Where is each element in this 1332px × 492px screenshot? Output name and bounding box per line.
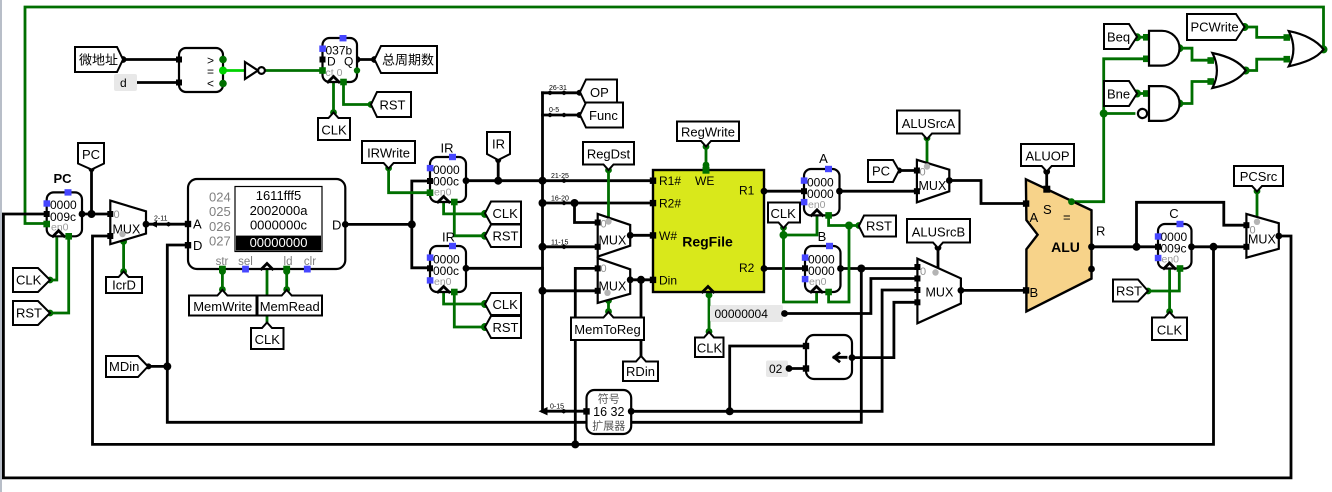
node IR2 RST tip dot [481,323,489,331]
wire sign-extend branch to shifter input [730,346,803,411]
wire PCWrite to OR2 in1 [1245,27,1287,37]
splitter tap 0-15 to sign extender [545,410,583,413]
tunnel label RST (IR1) [485,225,521,248]
splitter 0-5 diamonds [546,113,568,118]
svg-text:<: < [207,77,214,91]
gate NOT [245,62,265,79]
tunnel label CLK (A/B) [768,203,800,229]
node IR2 CLK tip dot [481,300,489,308]
svg-text:MemToReg: MemToReg [574,322,640,337]
node AB CLK tip dot [780,224,787,231]
splitter 26-31 diamonds [546,90,568,95]
node counter CLK tip dot [330,109,337,116]
gate AND2 (Bne) with inverted input [1138,86,1180,121]
wire MDin tunnel stub [148,365,167,368]
tunnel label MDin [106,356,148,377]
wire PC label riser [90,169,93,215]
svg-text:RST: RST [1116,284,1142,299]
comparator [176,48,227,92]
wire IR tunnel stub [497,160,500,181]
wire constant 02 to shifter shift-amount [789,367,803,370]
wire branch C net up to Din-MUX input 0 [575,268,597,444]
mux ALUSrcA [914,160,953,203]
wire IR1 RST [454,204,485,236]
splitter 0-15 diamond [560,409,568,414]
svg-text:MUX: MUX [599,280,627,294]
svg-text:微地址: 微地址 [79,53,118,68]
wire memory D output to IR registers [345,181,427,268]
node C CLK tip dot [1166,308,1173,315]
wire Bne tunnel to AND2 in1 [1137,92,1146,95]
svg-text:16-20: 16-20 [551,196,569,203]
node Din/RDin junction [637,276,645,284]
wire A output to ALUSrcA in1 [840,190,917,193]
node IR1 RST tip dot [481,232,489,240]
node RegFile CLK dots [706,292,713,299]
wire B output to ALUSrcB in0 [841,267,918,270]
wire RDin tunnel riser [640,280,643,356]
node MemRead dots [283,268,290,275]
node memory D out junction [408,220,416,228]
wire IR1 output main bus (21-25 row) [466,179,650,182]
svg-text:IcrD: IcrD [112,278,136,293]
svg-text:CLK: CLK [1157,323,1183,338]
wire PC tunnel to ALUSrcA in0 [899,169,917,172]
mux PCSrc-MUX [1243,214,1282,258]
wire PCSrc select [1256,191,1259,216]
wire MemToReg to Din-MUX select [607,300,610,312]
wire ALUSrcB select (2-bit, black) [937,247,940,267]
svg-text:02: 02 [769,362,783,376]
svg-text:0: 0 [920,266,926,278]
svg-text:21-25: 21-25 [551,173,569,180]
node bus-splitter junction [539,177,547,185]
tunnel label OP [580,80,617,105]
node = flag junction at Bne [1100,110,1108,118]
wire W-MUX output to RegFile W# [630,234,650,237]
svg-text:11-15: 11-15 [551,239,568,246]
memory RAM [185,179,349,273]
node IR1 CLK tip dot [481,210,489,218]
tunnel label RegDst [583,142,634,170]
window left border [0,0,2,492]
svg-text:MUX: MUX [1248,233,1276,247]
mux Din-MUX (MemToReg) [595,258,634,303]
svg-text:A: A [1030,210,1039,225]
wire OR1 out to OR2 in2 [1246,59,1287,70]
svg-text:ALUOP: ALUOP [1025,149,1069,164]
svg-text:MUX: MUX [926,286,954,300]
wire comparator = to NOT gate (logic 1) [223,69,243,72]
wire B output to memory D input via bottom (net B / MDin) [167,245,861,422]
tunnel label PCSrc [1234,166,1283,192]
wire IR2 CLK [444,292,485,304]
svg-text:Beq: Beq [1107,30,1130,45]
node MemToReg dots [605,297,612,304]
svg-text:ALU: ALU [1051,239,1080,255]
svg-text:RDin: RDin [626,364,655,379]
tunnel label MemWrite [189,290,257,316]
node PCWrite tip dot [1241,23,1249,31]
svg-text:MUX: MUX [599,234,627,248]
tunnel label ALUSrcA [897,111,960,140]
node IcrD tip dot [120,268,127,275]
svg-text:PC: PC [82,147,100,162]
node OR1 out dot [1242,67,1250,75]
node shifter branch on sign-extend net [726,407,734,415]
tunnel label cycle count [375,46,438,73]
svg-text:CLK: CLK [493,297,519,312]
tunnel label CLK (IR2) [485,293,521,315]
svg-text:Func: Func [589,108,618,123]
wire IRWrite to IR1 enable [389,168,427,193]
node OR2 out dot [1320,45,1328,53]
wire Beq tunnel to AND1 in1 [1137,36,1146,39]
tunnel label ALUSrcB [907,219,970,248]
gate OR2 [1284,31,1324,66]
wire IR2 RST [454,294,485,327]
svg-text:RST: RST [866,219,892,234]
tunnel label CLK (C) [1152,312,1187,340]
wire AND2 out to OR1 in2 [1179,82,1210,104]
tunnel label CLK (IR1) [485,202,521,225]
wire RegDst to W-MUX select [607,170,610,218]
node constant d output [131,79,138,86]
tunnel label PC (top) [78,143,104,170]
svg-text:PC: PC [53,171,72,186]
tunnel label ALUOP [1021,144,1074,172]
wire C CLK [1168,269,1171,312]
tunnel label CLK (PC) [13,268,50,292]
node MDin tap [163,362,171,370]
node micro-address tunnel tip [120,56,127,63]
svg-text:024: 024 [209,190,231,205]
tunnel label micro-address [75,47,123,72]
tunnel label RDin [623,356,658,381]
node AB RST tip dot [855,222,862,229]
node AND2 out dot [1175,100,1183,108]
node PC-MUX select dot [120,238,127,245]
wire counter Q to cycle-count tunnel [357,58,374,61]
node PC RST tip dot [47,310,54,317]
node ALUSrcB tip dot [935,244,942,251]
node cycle tunnel tip dot [371,56,378,63]
svg-text:R: R [1096,224,1105,239]
svg-text:26-31: 26-31 [549,85,567,92]
wire constant d to comparator in2 [134,81,176,84]
svg-text:R2#: R2# [659,197,681,211]
wire shifter output to ALUSrcB in3 [852,302,917,357]
wire memory CLK [266,269,269,322]
svg-text:2002000a: 2002000a [250,203,309,218]
svg-text:符号: 符号 [598,393,620,406]
wire NOT gate to counter enable [266,69,323,72]
wire ALU = flag riser to branch gates [1072,59,1147,202]
svg-text:0-15: 0-15 [550,404,564,411]
node IRWrite tip dot [385,165,392,172]
tunnel label Func [580,103,623,128]
wire counter clock to CLK tunnel [332,82,335,112]
tunnel label RST (A/B) [859,216,896,237]
svg-text:RST: RST [493,320,519,335]
node counter Q dot [354,56,361,63]
wire PC Q output to PC-MUX in0 [82,213,110,216]
svg-text:CLK: CLK [321,123,347,138]
constant 00000004 [710,305,788,322]
node ALUOP tip dot [1043,168,1050,175]
svg-text:Q: Q [344,55,353,69]
svg-text:CLK: CLK [697,341,723,356]
svg-text:MDin: MDin [109,359,139,374]
svg-text:RegWrite: RegWrite [681,125,735,140]
tunnel label RST (counter) [371,92,411,117]
splitter tap 0-5 to Func [543,114,581,117]
register A [801,151,843,219]
svg-text:MemRead: MemRead [260,299,320,314]
tunnel label CLK (memory) [251,323,284,350]
svg-text:S: S [1043,202,1052,217]
regfile [650,167,768,292]
node AND1 out dot [1175,44,1183,52]
node 16-20 branch junction [571,199,579,207]
wire AB RST tunnel to A and B resets [829,217,859,302]
wire sign extender output to ALUSrcB in2 [631,290,917,411]
tunnel label PCWrite [1187,14,1245,40]
svg-text:R1: R1 [739,184,755,198]
tunnel label MemRead [258,290,323,316]
svg-text:CLK: CLK [771,206,797,221]
node B output junction [857,265,865,273]
svg-text:MUX: MUX [113,223,141,237]
svg-text:D: D [193,238,202,253]
node C-out junction [1210,243,1218,251]
register C [1155,206,1195,272]
register IR2 [427,230,470,296]
register PC [43,171,85,240]
svg-text:CLK: CLK [255,332,281,347]
svg-text:Din: Din [659,273,677,287]
svg-text:B: B [1030,285,1039,300]
mux PC-MUX [107,201,149,245]
wire C register output to PC-MUX in1 and Din-MUX in0 (net C) [93,236,1214,444]
svg-text:IRWrite: IRWrite [367,146,410,161]
tunnel label RegWrite [677,122,739,147]
splitter 2-11 diamond [165,222,173,227]
tunnel label MemToReg [571,312,644,340]
svg-text:MUX: MUX [919,179,947,193]
svg-text:0000000c: 0000000c [250,218,308,233]
svg-text:总周期数: 总周期数 [382,53,434,68]
svg-text:d: d [120,76,127,90]
svg-text:00000000: 00000000 [250,235,308,250]
svg-text:MemWrite: MemWrite [193,299,252,314]
wire ALUSrcA select [926,138,929,163]
svg-text:=: = [1063,210,1071,225]
tunnel label IR (bus) [487,132,510,160]
node IR tunnel junction [494,177,502,185]
splitter spine IR [541,93,544,411]
wire AB CLK tunnel to A and B clocks [784,215,818,302]
svg-text:RST: RST [493,229,519,244]
tunnel label RST (PC) [13,301,50,325]
splitter 2-11 arrow [150,221,157,228]
wire ALU R to C register and PCSrc-MUX [1092,245,1247,248]
svg-text:1611fff5: 1611fff5 [256,188,302,203]
counter (cycle counter) [319,35,360,85]
node 11-15 junction on spine [539,243,547,251]
tunnel label Bne [1104,81,1137,106]
svg-text:2-11: 2-11 [154,216,168,223]
svg-text:RegFile: RegFile [682,234,733,250]
wire PC RST [50,240,69,313]
wire ALUOP to ALU S (black) [1045,171,1048,188]
wire IR1 CLK [444,202,485,214]
wire IR2 output to spine and Din-MUX in1 [466,268,598,291]
svg-text:B: B [818,229,827,244]
svg-text:W#: W# [659,229,677,243]
node C RST tip dot [1145,288,1152,295]
wire PC CLK [50,239,57,281]
svg-text:D: D [332,218,341,233]
wire ALUSrcB output to ALU B [961,289,1023,292]
svg-text:00000004: 00000004 [715,307,769,321]
svg-text:PCWrite: PCWrite [1191,20,1239,35]
node PCSrc tip dot [1254,188,1261,195]
gate OR1 [1207,53,1245,88]
register B [802,229,844,295]
splitter tap 26-31 to OP [543,91,581,94]
splitter tap 16-20 to R2# and W-MUX in0 [543,203,651,223]
svg-text:PCSrc: PCSrc [1240,169,1278,184]
wire constant 4 to ALUSrcB in1 [785,279,918,314]
tunnel label IRWrite [362,141,415,169]
tunnel label RST (IR2) [485,316,521,338]
svg-text:CLK: CLK [493,206,519,221]
tunnel label Beq [1104,24,1137,49]
wire RegWrite to RegFile WE [705,146,708,167]
splitter 21-25 diamond on bus [560,178,568,183]
svg-text:Bne: Bne [1107,87,1130,102]
node Bne tip dot [1133,90,1141,98]
svg-text:025: 025 [209,204,231,219]
wire AND1 out to OR1 in1 [1179,48,1210,60]
node AB RST junction [845,222,853,230]
wire RegFile R2 to B register [764,267,805,270]
wire ALUSrcA output to ALU A [949,181,1023,204]
tunnel label RST (C) [1113,280,1148,302]
node R/C-D junction [1133,243,1141,251]
node 16-20 junction on spine [539,199,547,207]
wire RegFile R1 to A register [764,190,804,193]
alu ALU [1023,179,1105,311]
tunnel label CLK (counter) [318,113,350,141]
svg-text:027: 027 [209,234,231,249]
constant 02 [766,361,792,378]
node IR2/DinMux junction [539,287,547,295]
mux ALUSrcB [914,259,964,324]
node PC output junction [88,210,96,218]
wire MemRead to memory ld [285,269,288,290]
svg-text:R2: R2 [739,261,755,275]
svg-text:CLK: CLK [16,273,42,288]
node C-net / DinMux branch [571,440,579,448]
shifter (shift left 2) [803,335,856,379]
wire PC-MUX output to memory A (2-11 splitter) [146,223,185,226]
wire R over C register to PCSrc-MUX in0 [1137,202,1247,247]
svg-text:IR: IR [442,230,455,245]
svg-text:IR: IR [492,137,505,152]
svg-text:ALUSrcB: ALUSrcB [912,225,965,240]
node ALUSrcA tip dot [924,135,931,142]
wire PCSrc MUX output to PC D (bottom loop, net PCNext) [3,214,1291,478]
node Beq tip dot [1133,33,1141,41]
splitter 0-15 main arrow [539,407,548,415]
node PC CLK tip dot [47,277,54,284]
constant d [114,74,137,91]
svg-text:RST: RST [380,98,406,113]
node AB CLK junction [780,231,788,239]
svg-text:扩展器: 扩展器 [592,419,625,433]
svg-text:0: 0 [114,209,120,221]
sign extender [583,390,634,434]
gate AND1 (Beq) [1143,31,1180,66]
wire C RST [1148,270,1179,291]
svg-text:0-5: 0-5 [549,107,559,114]
svg-text:RegDst: RegDst [587,147,631,162]
svg-text:026: 026 [209,219,231,234]
svg-text:R1#: R1# [659,174,681,188]
svg-text:A: A [193,217,202,232]
node MemWrite dots [219,268,226,275]
svg-text:RST: RST [16,306,42,321]
wire counter reset to RST tunnel [344,84,372,105]
node counter RST tip dot [368,101,375,108]
wire IcrD to PC-MUX select [122,241,125,272]
text splitter bit ranges [549,85,569,411]
tunnel label PC (ALUSrcA) [868,160,899,182]
wire MemWrite to memory str [221,269,224,290]
wire micro-address to comparator in1 [123,58,176,61]
wire PCWrite-logic to PC enable (top loop) [25,7,1324,224]
splitter 16-20 diamond [560,201,568,206]
svg-text:16 32: 16 32 [593,405,624,419]
svg-text:OP: OP [590,85,609,100]
svg-text:ALUSrcA: ALUSrcA [902,116,956,131]
tunnel label CLK (RegFile) [695,332,724,357]
svg-text:WE: WE [695,174,714,188]
svg-text:A: A [819,151,828,166]
svg-text:C: C [1169,206,1178,221]
tunnel label IcrD [106,272,142,294]
mux W-MUX (RegDst) [595,214,634,257]
splitter 11-15 diamond [560,244,568,249]
svg-text:IR: IR [441,141,454,156]
node RegDst tip dot [605,167,612,174]
register IR1 [427,141,470,206]
wire Din-MUX output to RegFile Din [630,278,650,281]
node RegWrite dots [703,143,710,150]
wire RegFile CLK [708,292,711,332]
splitter tap 11-15 to W-MUX in1 [543,245,598,248]
svg-text:PC: PC [872,164,890,179]
svg-text:0: 0 [601,263,607,275]
